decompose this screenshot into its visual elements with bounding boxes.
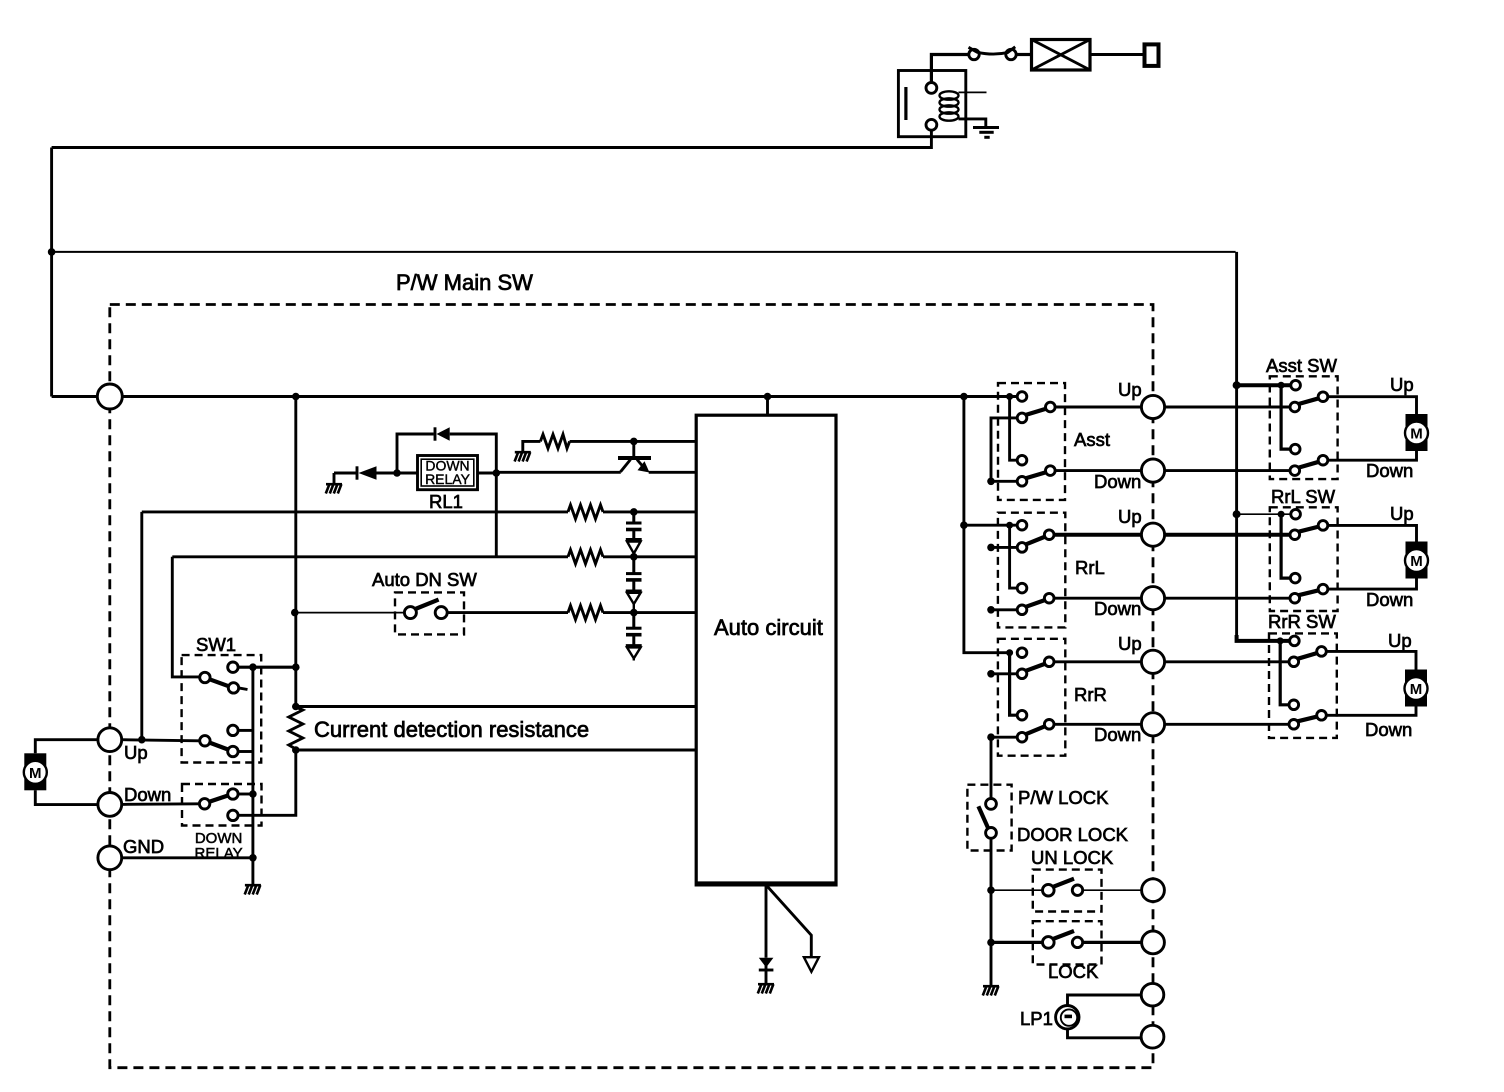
wire left feeder vertical — [50, 148, 53, 397]
wire terminal to lamp top — [1068, 995, 1142, 1006]
node rrl feed — [1006, 522, 1013, 529]
wire coil bottom lead to ground — [959, 119, 986, 127]
node unlock tap — [987, 886, 995, 894]
wire RrL P2 to bus — [991, 608, 1017, 611]
node resistor top — [292, 703, 300, 711]
svg-text:Down: Down — [124, 784, 171, 805]
svg-text:Up: Up — [124, 742, 148, 763]
terminal Down (RrL) — [1141, 587, 1164, 610]
node at x=963.9 — [960, 393, 968, 401]
svg-text:Auto DN SW: Auto DN SW — [372, 569, 477, 590]
relay (power window relay) box — [898, 71, 965, 137]
svg-text:Asst SW: Asst SW — [1266, 355, 1337, 376]
wire row y=612.6 Auto DN — [291, 609, 299, 617]
ground at lock chain — [983, 986, 999, 995]
svg-text:RrR SW: RrR SW — [1268, 611, 1336, 632]
svg-text:RELAY: RELAY — [195, 845, 243, 862]
node asst feed — [1006, 393, 1013, 400]
wire lock to terminal (bold) — [1083, 941, 1142, 944]
capacitor/diode stack C — [626, 613, 642, 661]
wire RL1 right lead — [478, 472, 497, 475]
node at x=296 — [292, 393, 300, 401]
wire switch to fuse — [1016, 53, 1031, 56]
wire RrL B to Up terminal (bold) — [1054, 533, 1143, 537]
ignition switch — [969, 49, 979, 59]
wire Down terminal to RrR SW P2 — [1164, 723, 1289, 726]
LOCK box — [1033, 921, 1102, 964]
UN LOCK box — [1033, 870, 1102, 912]
wire feed corner to RrR SW (bold) — [1237, 635, 1290, 641]
wire Asst SW E to motor — [1328, 451, 1417, 460]
wire collector side to auto circuit — [649, 471, 697, 474]
svg-text:P/W Main SW: P/W Main SW — [396, 270, 533, 295]
wire resistor bottom down to down-relay contact — [238, 750, 296, 815]
wire diagonal to open arrow — [766, 885, 811, 957]
node RL1 right — [493, 469, 501, 477]
switch SW1 pole2 — [228, 725, 238, 735]
svg-text:Auto circuit: Auto circuit — [714, 615, 823, 640]
vertical x=295.8 power to resistor — [294, 397, 297, 708]
node resistor bottom — [292, 746, 300, 754]
svg-text:Down: Down — [1094, 471, 1141, 492]
wire Down terminal to RrL SW P2 — [1164, 597, 1290, 600]
resistor pullup — [540, 434, 569, 448]
wire internal feed down — [1281, 514, 1290, 578]
wire Asst E to Down terminal — [1055, 469, 1142, 472]
motor M1 (Asst) — [1405, 414, 1428, 451]
svg-text:LOCK: LOCK — [1048, 961, 1099, 982]
wire to unlock switch — [991, 889, 1043, 891]
node SW1 wire tap — [292, 663, 300, 671]
wire internal feed down — [1281, 385, 1290, 449]
switch down relay contacts — [228, 789, 238, 799]
SW1 box — [182, 655, 262, 762]
wire RrR SW B to motor — [1326, 651, 1416, 669]
RrR unit box — [998, 639, 1065, 756]
switch RrR SW Up pole — [1290, 636, 1300, 646]
wire feed to Asst SW (bold) — [1237, 383, 1291, 387]
wire rrr internal feed down (bold) — [1010, 653, 1018, 716]
motor M0 (main window) — [24, 753, 47, 790]
switch RrL Up pole — [1017, 520, 1027, 530]
terminal Down — [98, 793, 122, 817]
wire Up to motor — [35, 740, 97, 754]
wire Up terminal to Asst SW P1 — [1164, 406, 1290, 409]
ground at pullup resistor — [523, 441, 541, 452]
svg-text:DOOR LOCK: DOOR LOCK — [1017, 824, 1129, 845]
diode D3 — [759, 958, 774, 968]
svg-text:P/W LOCK: P/W LOCK — [1018, 787, 1109, 808]
terminal Up (RrR) — [1141, 650, 1164, 673]
transistor Q1 — [618, 441, 651, 472]
resistor current detection — [289, 707, 303, 749]
wire vertical x=141.8 down to Up wire — [140, 512, 143, 740]
switch Asst SW Down pole — [1290, 444, 1300, 454]
battery terminal — [1145, 44, 1159, 66]
wire top feed — [766, 397, 769, 416]
svg-text:RrR: RrR — [1074, 684, 1107, 705]
terminal Down (RrR) — [1141, 713, 1164, 736]
stub SW1 pole1 lower contact — [239, 688, 248, 690]
svg-text:Asst: Asst — [1074, 429, 1110, 450]
wire RL1 node down to y557 — [495, 473, 498, 557]
switch Asst SW Up pole — [1291, 380, 1301, 390]
wire door feed vertical — [1235, 252, 1238, 514]
wire pullup to auto circuit — [570, 440, 697, 443]
wire feed to RrL SW — [1237, 513, 1291, 515]
switch RrR SW Down pole — [1289, 700, 1299, 710]
svg-text:Down: Down — [1094, 724, 1141, 745]
wire Down terminal to down relay — [122, 802, 199, 806]
node rail2 junction — [48, 248, 56, 256]
wire vertical x=172.3 down to SW1 — [172, 557, 199, 677]
wire bottom to diode/ground — [765, 885, 768, 958]
wire asst internal feed down — [1010, 397, 1018, 461]
wire Asst SW B to motor — [1328, 397, 1417, 414]
capacitor/diode stack A — [626, 512, 642, 557]
P/W Main SW enclosure — [110, 305, 1153, 1068]
switch RrR Down pole — [1017, 710, 1027, 720]
switch RrL SW Down pole — [1290, 573, 1300, 583]
wire internal feed down — [1280, 641, 1289, 705]
terminal lamp bottom — [1141, 1025, 1164, 1048]
switch RrL SW Up pole — [1291, 509, 1301, 519]
svg-text:Up: Up — [1390, 503, 1414, 524]
wire rrl internal feed down — [1010, 525, 1018, 588]
Auto circuit box — [696, 415, 836, 885]
vertical feed x=963.9 — [964, 397, 1010, 653]
motor M2 (RrL) — [1405, 542, 1428, 579]
motor M3 (RrR) — [1405, 670, 1428, 707]
Asst unit box — [998, 383, 1065, 500]
open arrow — [804, 957, 819, 972]
wire row y=556.8 from x=172.3 — [172, 555, 568, 558]
switch Auto DN SW — [404, 607, 416, 619]
wire feeder to power input circle — [52, 395, 98, 398]
wire RrR B to Up terminal — [1054, 660, 1143, 663]
switch SW1 pole1 — [228, 662, 238, 672]
node rrr feed — [1006, 649, 1013, 656]
svg-text:Up: Up — [1118, 506, 1142, 527]
terminal Down (Asst) — [1141, 459, 1164, 482]
diode D1 to ground — [334, 466, 397, 484]
wire Asst P2 to bus — [991, 480, 1017, 483]
node base divider — [630, 438, 638, 446]
svg-text:Up: Up — [1390, 374, 1414, 395]
wire GND terminal to ground line — [122, 856, 253, 859]
wire Auto DN to resistor — [447, 611, 568, 614]
ground at auto circuit — [758, 984, 774, 993]
svg-text:RELAY: RELAY — [425, 471, 471, 487]
wire ground vertical x=252.9 — [251, 667, 254, 884]
wire RrL SW E to motor — [1328, 579, 1417, 590]
wire bus down to P/W LOCK — [990, 737, 993, 798]
wire lock chain vertical — [990, 838, 993, 985]
wire Asst P1 to bus — [991, 418, 1017, 481]
relay top contact — [926, 83, 937, 94]
wire door feed vertical lower — [1235, 514, 1238, 637]
svg-text:Up: Up — [1388, 630, 1412, 651]
node RL1 left — [393, 469, 401, 477]
svg-text:RrL SW: RrL SW — [1271, 486, 1336, 507]
stub pole2 upper contact to ground line — [238, 729, 253, 732]
wire RrR P2 to bus — [991, 736, 1017, 739]
relay movable contact bar — [904, 87, 907, 120]
Asst SW box — [1270, 376, 1338, 479]
switch P/W LOCK — [986, 799, 997, 810]
svg-text:Down: Down — [1366, 460, 1413, 481]
node Asst SW feed — [1233, 381, 1241, 389]
DOWN RELAY contact box — [182, 784, 262, 826]
wire coil top lead — [959, 91, 987, 93]
wire RrL P1 to bus — [991, 546, 1017, 549]
wire down relay upper contact to ground line — [238, 793, 253, 796]
svg-text:Up: Up — [1118, 633, 1142, 654]
wire RrL feed — [964, 524, 1017, 527]
wire rail 2 to door switch column — [52, 251, 1236, 253]
wire Up terminal to SW1 pole2 — [122, 740, 200, 741]
wire emitter side — [496, 471, 621, 474]
relay coil — [940, 91, 959, 120]
wire Down terminal to Asst SW P2 — [1164, 469, 1290, 472]
auto circuit box bottom edge — [696, 881, 836, 883]
terminal Up (Asst) — [1141, 395, 1164, 418]
wire resistor top to auto circuit — [296, 705, 696, 708]
terminal GND — [98, 846, 122, 870]
ground (IEC) at relay coil — [973, 128, 999, 138]
wire SW1 pole1 contact to bus — [238, 666, 296, 669]
switch LOCK — [1043, 937, 1055, 949]
wire RL1 left lead — [397, 472, 418, 475]
terminal lamp top — [1141, 983, 1164, 1006]
Auto DN SW box — [395, 592, 464, 634]
wire RrL E to Down terminal — [1054, 597, 1143, 600]
svg-text:UN LOCK: UN LOCK — [1031, 847, 1114, 868]
RrL unit box — [998, 513, 1065, 628]
svg-text:RrL: RrL — [1075, 557, 1105, 578]
svg-text:Down: Down — [1094, 598, 1141, 619]
svg-text:GND: GND — [123, 836, 164, 857]
wire to lock switch (bold) — [991, 941, 1043, 944]
switch UN LOCK — [1043, 884, 1055, 896]
switch RrR Up pole — [1017, 648, 1027, 658]
wire RrR E to Down terminal — [1054, 723, 1143, 726]
terminal unlock — [1142, 879, 1165, 902]
wire motor to Down — [35, 790, 97, 804]
wire lamp bottom to terminal — [1068, 1029, 1142, 1038]
ground at SW1 column — [245, 885, 261, 894]
relay bottom contact — [926, 119, 937, 130]
switch Asst Down pole — [1017, 455, 1027, 465]
terminal Up — [98, 728, 122, 752]
RrR SW box — [1269, 633, 1337, 738]
wire main power bus y=396.5 — [122, 395, 1017, 398]
capacitor/diode stack B — [626, 557, 642, 613]
wire relay top contact to ignition switch — [931, 55, 968, 83]
wire unlock to terminal — [1083, 889, 1142, 891]
lamp LP1 — [1056, 1006, 1079, 1029]
wire RrL SW B to motor — [1328, 525, 1417, 541]
svg-text:Current detection resistance: Current detection resistance — [314, 717, 589, 742]
svg-text:Up: Up — [1118, 379, 1142, 400]
svg-text:RL1: RL1 — [429, 491, 463, 512]
switch Asst Up pole — [1017, 392, 1027, 402]
fuse — [1032, 40, 1091, 71]
svg-text:Down: Down — [1366, 589, 1413, 610]
ground at RL1 diode — [326, 484, 342, 493]
wire relay bottom contact down to rail 1 — [52, 130, 932, 147]
wire RrR SW E to motor — [1326, 707, 1416, 716]
wire resistor bottom to auto circuit — [296, 749, 696, 752]
wire Asst B to Up terminal — [1055, 406, 1142, 409]
power input terminal circle — [97, 384, 122, 409]
switch RrL Down pole — [1017, 583, 1027, 593]
stub pole2 lower contact to ground line — [238, 750, 253, 753]
wire row y=511.9 from x=141.8 — [142, 510, 568, 513]
wire fuse to battery — [1090, 53, 1145, 56]
node at x=767.5 — [764, 393, 772, 401]
wire Up terminal to RrL SW P1 (bold) — [1164, 533, 1290, 537]
svg-text:Down: Down — [1365, 719, 1412, 740]
terminal Up (RrL) — [1141, 523, 1164, 546]
node lock tap — [987, 939, 995, 947]
svg-text:SW1: SW1 — [196, 634, 236, 655]
wire RrR P1 to bus — [991, 672, 1017, 675]
terminal lock — [1142, 931, 1165, 954]
wire Up terminal to RrR SW P1 — [1164, 660, 1289, 663]
node RrL SW feed — [1233, 510, 1241, 518]
diode D2 across relay — [397, 427, 496, 473]
RrL SW box — [1270, 507, 1338, 611]
svg-text:LP1: LP1 — [1020, 1008, 1053, 1029]
relay RL1 box — [418, 456, 478, 490]
P/W LOCK box — [967, 785, 1011, 851]
